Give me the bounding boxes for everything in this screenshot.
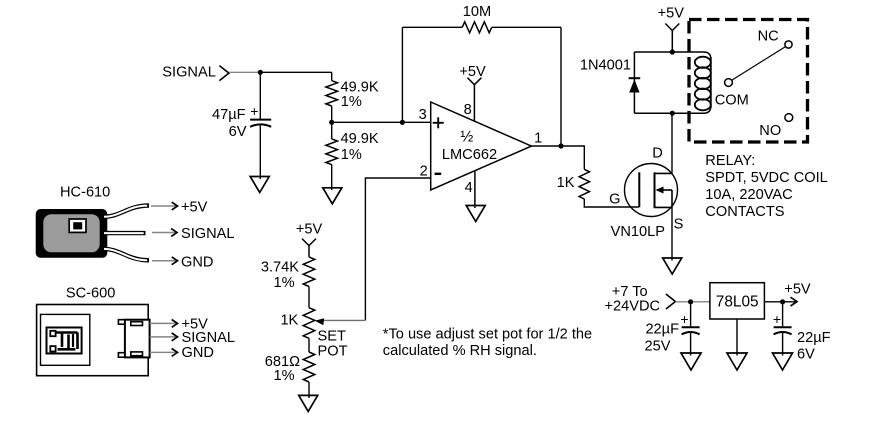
svg-text:SIGNAL: SIGNAL <box>182 330 236 346</box>
svg-text:6V: 6V <box>229 124 247 140</box>
svg-text:GND: GND <box>182 345 214 361</box>
junction R1/R2/pin3 <box>329 120 334 125</box>
resistor R2 49.9K 1% <box>326 131 379 165</box>
ground below C1 <box>250 177 269 193</box>
wire feedback top left segment <box>402 26 462 28</box>
ground input cap <box>681 353 701 370</box>
transistor Q1 VN10LP <box>625 164 678 217</box>
wire regulator output <box>764 301 796 303</box>
svg-text:GND: GND <box>181 254 213 270</box>
svg-text:22µF: 22µF <box>797 330 831 346</box>
junction diode/coil/drain <box>670 111 675 116</box>
junction output/feedback <box>558 143 563 148</box>
svg-text:+: + <box>773 311 781 327</box>
wire pin3 input <box>332 121 431 123</box>
relay coil K1 <box>695 57 711 111</box>
ground pot chain <box>299 395 318 411</box>
wire drain <box>671 113 673 173</box>
svg-text:47µF: 47µF <box>212 107 248 123</box>
wire feedback right vertical <box>560 27 562 146</box>
svg-text:10M: 10M <box>463 4 491 20</box>
resistor R1 49.9K 1% <box>326 80 379 110</box>
wire feedback top right segment <box>492 26 561 28</box>
ground op-amp pin 4 <box>466 206 485 222</box>
svg-text:+: + <box>250 103 258 119</box>
svg-text:+24VDC: +24VDC <box>605 298 661 314</box>
svg-text:1: 1 <box>534 131 542 147</box>
svg-text:½: ½ <box>460 128 473 145</box>
op-amp U1 LMC662 <box>431 102 532 190</box>
svg-text:D: D <box>652 146 663 162</box>
SC-600 pin +5V <box>150 316 208 332</box>
svg-text:CONTACTS: CONTACTS <box>705 204 784 220</box>
regulator U2 78L05 <box>710 283 765 319</box>
svg-text:NC: NC <box>758 29 779 45</box>
junction output cap <box>780 299 785 304</box>
svg-text:+: + <box>680 311 688 327</box>
relay contact NC <box>758 29 793 49</box>
wire R1 to junction <box>331 106 333 139</box>
resistor R4 1K gate <box>557 169 590 199</box>
svg-text:4: 4 <box>465 180 473 196</box>
svg-text:NO: NO <box>759 123 781 139</box>
svg-text:1%: 1% <box>274 368 295 384</box>
svg-text:COM: COM <box>715 92 749 108</box>
wire op-amp output <box>531 146 584 169</box>
wire R7 to ground <box>308 382 310 398</box>
svg-text:3.74K: 3.74K <box>261 259 299 275</box>
svg-text:SET: SET <box>318 329 346 345</box>
svg-text:1%: 1% <box>274 275 295 291</box>
wire signal input to resistor chain <box>229 71 332 73</box>
svg-text:1K: 1K <box>557 175 575 191</box>
svg-text:10A, 220VAC: 10A, 220VAC <box>705 187 792 203</box>
resistor R3 10M feedback <box>462 4 492 33</box>
resistor R5 3.74K 1% <box>261 257 315 291</box>
node +7 to +24VDC input label <box>605 284 661 315</box>
ground source <box>663 258 682 274</box>
wire C1 top lead <box>259 72 261 119</box>
svg-text:SC-600: SC-600 <box>66 286 115 302</box>
capacitor C3 22uF 6V <box>773 302 831 363</box>
power input chevron <box>666 294 676 309</box>
HC-610 pin GND <box>152 254 213 270</box>
sensor HC-610 body <box>36 185 111 258</box>
svg-text:SIGNAL: SIGNAL <box>162 65 216 81</box>
svg-text:RELAY:: RELAY: <box>705 153 755 169</box>
HC-610 lead GND <box>104 249 149 260</box>
HC-610 lead +5V <box>104 206 149 217</box>
svg-text:SIGNAL: SIGNAL <box>181 226 235 242</box>
sensor SC-600 body <box>37 286 149 376</box>
HC-610 pin SIGNAL <box>152 226 235 242</box>
svg-text:3: 3 <box>419 107 427 123</box>
svg-text:1N4001: 1N4001 <box>580 57 631 73</box>
ground output cap <box>773 353 793 370</box>
wire power input to regulator <box>675 301 710 303</box>
SC-600 pin GND <box>150 345 214 361</box>
output arrow +5V <box>791 297 798 306</box>
wiper arrow into pot <box>315 318 324 325</box>
SC-600 pin SIGNAL <box>150 330 235 346</box>
svg-text:G: G <box>609 192 620 208</box>
svg-text:VN10LP: VN10LP <box>611 224 665 240</box>
relay description text <box>705 153 827 220</box>
relay contact COM <box>715 79 749 109</box>
wire source to ground <box>671 207 673 260</box>
svg-text:1%: 1% <box>341 94 362 110</box>
wire pin 2 input <box>322 178 431 320</box>
wire R2 bottom <box>331 165 333 190</box>
wire relay top rail <box>634 52 710 59</box>
diode D1 1N4001 <box>580 52 640 113</box>
wire 1K to gate <box>584 199 639 207</box>
svg-text:8: 8 <box>464 102 472 118</box>
wire regulator ground <box>736 319 738 356</box>
capacitor C2 22uF 25V <box>645 302 700 356</box>
svg-text:78L05: 78L05 <box>716 294 759 311</box>
capacitor C1 47uF 6V <box>212 103 271 140</box>
wire into R1 top <box>331 72 333 80</box>
svg-text:+5V: +5V <box>658 6 685 22</box>
note text <box>383 326 592 359</box>
potentiometer R6 1K SET POT <box>280 308 347 360</box>
wire feedback left vertical <box>401 27 403 122</box>
junction +5V/diode/coil <box>670 49 675 54</box>
HC-610 pin +5V <box>151 200 208 216</box>
SC-600 connector <box>118 320 149 358</box>
svg-text:LMC662: LMC662 <box>442 147 497 163</box>
svg-text:1%: 1% <box>341 147 362 163</box>
wire relay bottom rail <box>634 106 710 113</box>
svg-text:25V: 25V <box>645 338 671 354</box>
svg-text:2: 2 <box>420 163 428 179</box>
svg-text:*To use adjust set pot for 1/2: *To use adjust set pot for 1/2 the <box>383 326 592 342</box>
wire C1 bottom lead <box>259 126 261 180</box>
svg-text:+5V: +5V <box>181 200 208 216</box>
svg-text:22µF: 22µF <box>645 321 679 337</box>
SC-600 sensing element <box>47 328 82 354</box>
svg-text:+5V: +5V <box>296 221 323 237</box>
svg-text:calculated % RH signal.: calculated % RH signal. <box>383 343 537 359</box>
wire pin 4 to ground <box>474 171 476 209</box>
input connector chevron <box>219 66 229 81</box>
relay contact NO <box>759 114 792 139</box>
wire R5 to pot <box>308 287 310 308</box>
svg-text:+5V: +5V <box>459 64 486 80</box>
svg-text:S: S <box>674 216 684 232</box>
svg-text:1K: 1K <box>280 312 298 328</box>
svg-text:49.9K: 49.9K <box>341 131 379 147</box>
junction input cap <box>688 299 693 304</box>
svg-text:SPDT, 5VDC COIL: SPDT, 5VDC COIL <box>705 170 827 186</box>
wire pot to R7 <box>308 338 310 352</box>
ground below R2 <box>323 188 342 204</box>
svg-text:HC-610: HC-610 <box>60 185 110 201</box>
relay switch arm <box>732 47 785 80</box>
relay dashed enclosure <box>689 20 808 143</box>
junction signal/C1 <box>258 70 263 75</box>
junction feedback/pin3 <box>400 120 405 125</box>
+5V supply pot chain <box>296 221 323 257</box>
ground regulator <box>727 353 747 370</box>
HC-610 lead SIGNAL <box>104 231 146 235</box>
svg-text:POT: POT <box>318 343 348 359</box>
+5V supply op-amp pin 8 <box>459 64 486 122</box>
svg-text:6V: 6V <box>797 346 815 362</box>
resistor R7 681ohm 1% <box>265 352 315 384</box>
svg-text:+5V: +5V <box>784 281 811 297</box>
+5V supply relay <box>658 6 685 53</box>
